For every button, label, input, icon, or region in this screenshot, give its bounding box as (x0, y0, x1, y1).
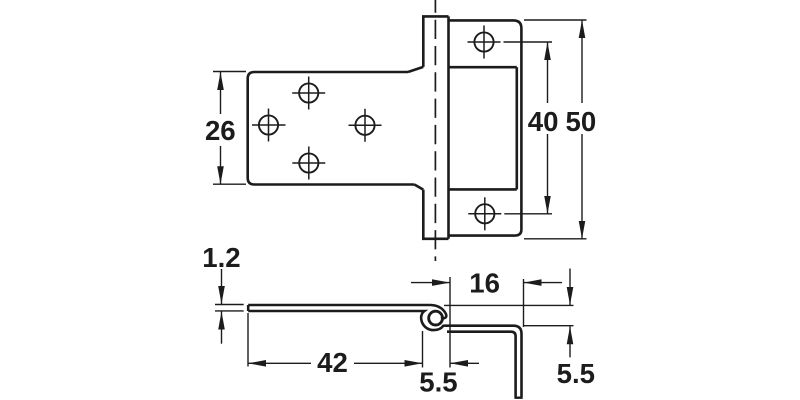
wing bent lip inner line (515, 67, 518, 189)
hole H5 wing top (474, 32, 493, 51)
left leaf outline (front view) (248, 67, 424, 190)
wing top flange lower edge (449, 66, 517, 69)
hole H1 left leaf left (259, 115, 278, 134)
dimension 40 extension lines (from hole centers) (504, 42, 553, 214)
svg-text:26: 26 (205, 115, 236, 146)
hole H4 left leaf bottom (299, 153, 318, 172)
dimension 1.2 arrows (221, 269, 223, 344)
svg-text:5.5: 5.5 (419, 366, 457, 397)
leaf top chamfer into barrel (408, 67, 423, 72)
dimension 5.5 (right) arrows (569, 269, 571, 358)
svg-text:5.5: 5.5 (557, 358, 595, 389)
barrel right edge (447, 16, 450, 238)
side view: flat leaf top surface wrapping over knuckle (248, 305, 446, 318)
dimension 50 arrows (581, 20, 583, 239)
leaf bottom chamfer into barrel (414, 185, 423, 190)
svg-text:42: 42 (317, 347, 348, 378)
dimension 16 arrows (411, 282, 562, 284)
dimension 40 arrows (547, 42, 549, 214)
dimension 5.5 (right) extension lines (444, 305, 574, 325)
svg-text:1.2: 1.2 (202, 242, 240, 273)
hole H6 wing bottom (475, 204, 494, 223)
svg-text:40: 40 (528, 106, 559, 137)
side view: frame leaf inner contour (447, 332, 516, 397)
dimension 26 arrows (220, 72, 222, 184)
wing bottom flange upper edge (449, 188, 517, 191)
barrel tab (front view) (423, 16, 448, 238)
hole H2 left leaf top (299, 83, 318, 102)
dimension 42 extension lines (248, 313, 423, 368)
svg-text:16: 16 (469, 268, 500, 299)
right wing outline (front view) (449, 20, 522, 235)
dimension 5.5 (knuckle) extension line (449, 277, 451, 368)
dimension 42 arrows (248, 362, 423, 364)
side view: leg bottom cap (514, 397, 522, 399)
svg-text:50: 50 (566, 106, 597, 137)
side view: knuckle pin hole (429, 311, 443, 325)
dimension 26 extension lines (213, 72, 246, 185)
dimension 16 extension line right (523, 279, 525, 327)
hole H3 left leaf right (355, 116, 374, 135)
dimension 50 extension lines (524, 20, 587, 239)
dimension 1.2 extension lines (215, 305, 244, 311)
side view: flat leaf bottom surface wrapping under knuckle into frame leaf (248, 311, 521, 397)
dimension 5.5 (knuckle) right arrow (450, 362, 479, 364)
centerline (hinge pin axis, dashed) (434, 0, 436, 261)
